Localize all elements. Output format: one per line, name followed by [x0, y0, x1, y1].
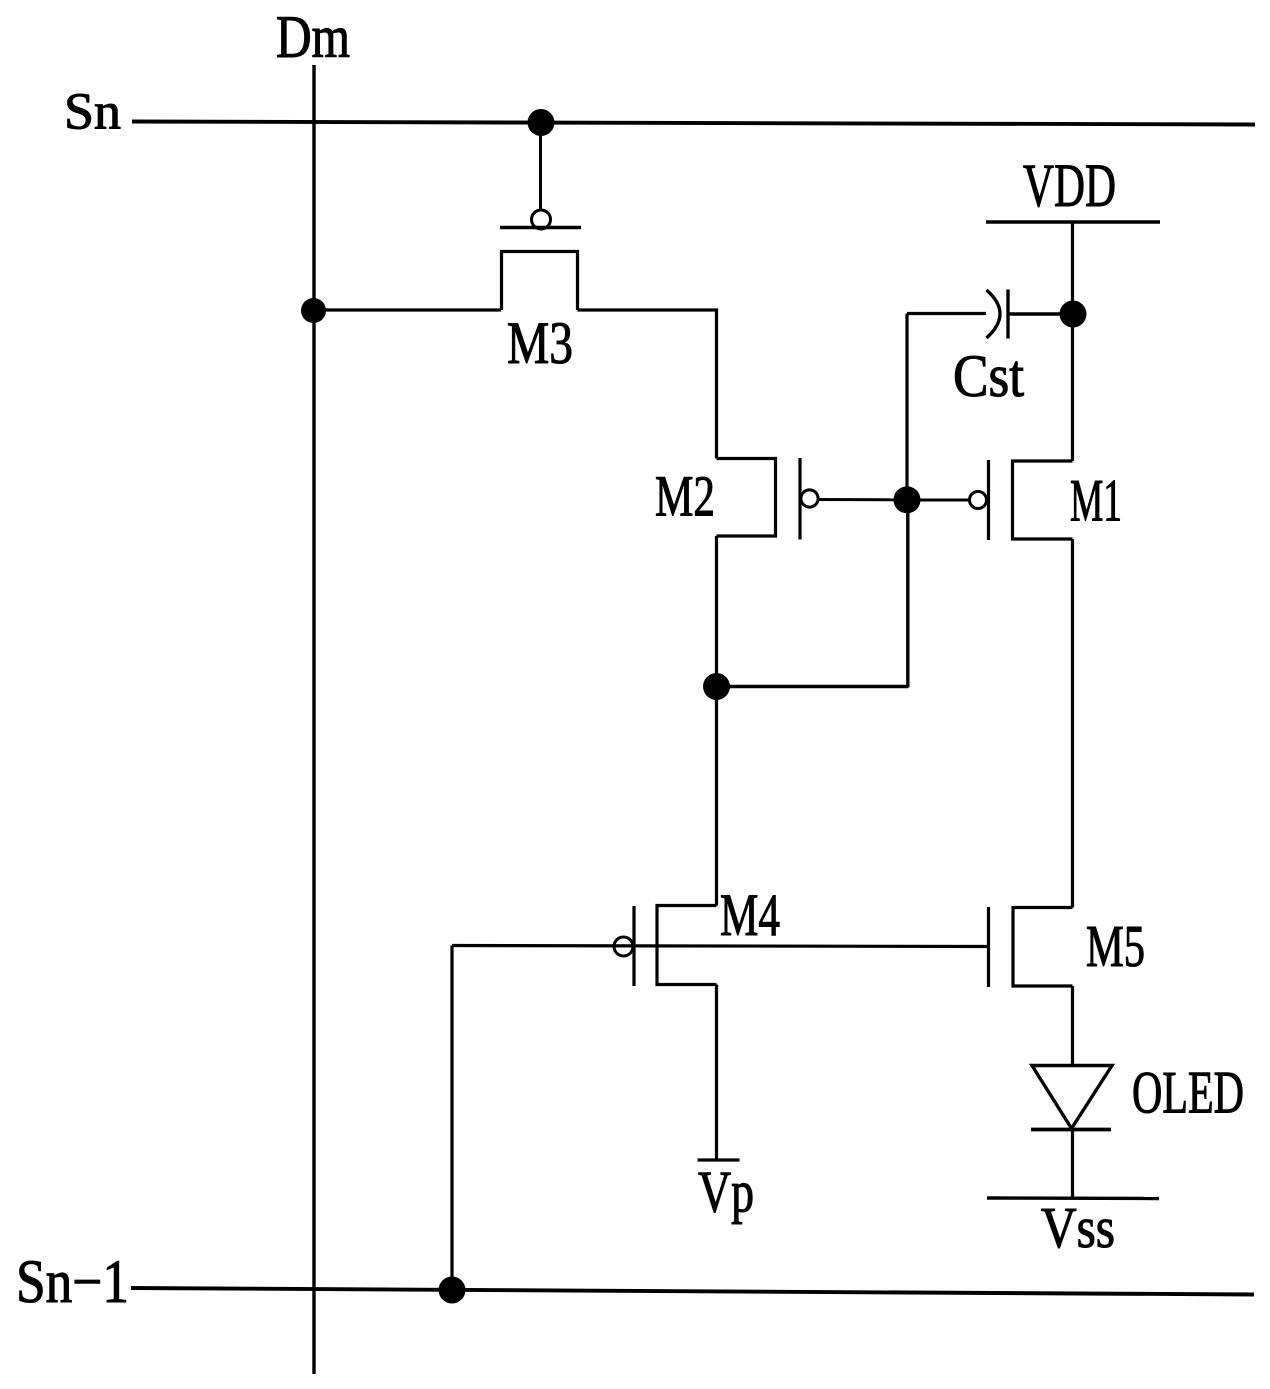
svg-text:Dm: Dm [276, 4, 350, 70]
wire gate node up to Cst [905, 314, 908, 501]
wire node horizontal to gate column [717, 685, 909, 689]
wire M4 source to Vp [715, 985, 718, 1161]
transistor M3 gate bubble [532, 210, 551, 229]
wire M3 gate stub [539, 122, 542, 211]
junction dot on Sn at M3 gate stub [528, 109, 555, 136]
diode OLED cathode bar [1031, 1128, 1111, 1132]
transistor M2 gate bubble [801, 490, 818, 507]
transistor M4 gate bubble [614, 937, 633, 956]
svg-text:VDD: VDD [1023, 153, 1116, 220]
capacitor Cst curved plate [987, 290, 1001, 338]
wire gate node column down [906, 500, 909, 688]
capacitor Cst right wire [1008, 312, 1073, 315]
power Vp bar [698, 1158, 740, 1161]
wire M3 drain to M2 [578, 310, 717, 459]
junction dot Cst/VDD [1060, 301, 1087, 328]
capacitor Cst left wire [907, 312, 986, 315]
transistor M1 gate bar [987, 460, 990, 540]
junction dot M2 drain node [703, 673, 730, 700]
wire OLED to Vss [1071, 1130, 1074, 1199]
junction dot gate node [894, 486, 921, 513]
power VDD bar [986, 220, 1160, 223]
transistor M1 channel and stubs [1013, 461, 1073, 539]
transistor M2 gate bar [798, 458, 801, 540]
wire M2 drain column [715, 536, 718, 906]
transistor M5 gate bar [987, 907, 990, 987]
wire Sn scan line [132, 122, 1255, 125]
svg-text:Vp: Vp [698, 1159, 754, 1225]
svg-text:M1: M1 [1070, 468, 1122, 534]
svg-text:Sn: Sn [64, 84, 121, 141]
diode OLED anode triangle [1032, 1066, 1112, 1129]
junction dot on Sn-1 [439, 1277, 466, 1304]
wire gate node to M1 bubble [907, 499, 969, 502]
wire Sn-1 scan line [131, 1288, 1254, 1295]
wire M4/M5 gate line [452, 946, 988, 947]
power Vss bar [987, 1196, 1159, 1200]
svg-text:M4: M4 [720, 882, 780, 948]
wire Dm to M3 source [314, 308, 502, 311]
transistor M3 gate bar [500, 226, 581, 229]
capacitor Cst straight plate [1006, 290, 1009, 339]
transistor M5 channel and stubs [1013, 908, 1073, 987]
svg-text:Vss: Vss [1041, 1195, 1115, 1260]
wire VDD to M1 [1071, 222, 1074, 461]
wire M1 source column to M5 [1071, 539, 1074, 908]
wire Sn-1 riser [450, 946, 453, 1291]
svg-text:OLED: OLED [1132, 1060, 1244, 1126]
junction dot on Dm [301, 298, 326, 323]
transistor M1 gate bubble [970, 492, 987, 509]
wire M2 gate to node [818, 498, 907, 501]
svg-text:Cst: Cst [953, 343, 1024, 409]
svg-text:M5: M5 [1086, 913, 1145, 979]
transistor M2 channel and stubs [717, 459, 776, 537]
wire M5 source to OLED [1071, 986, 1074, 1066]
svg-text:M3: M3 [507, 310, 573, 376]
wire Dm data line [312, 65, 315, 1374]
transistor M3 channel [502, 252, 578, 311]
transistor M4 channel and stubs [657, 906, 717, 985]
svg-text:Sn−1: Sn−1 [16, 1249, 129, 1316]
svg-text:M2: M2 [655, 464, 715, 529]
transistor M4 gate bar [632, 906, 635, 986]
